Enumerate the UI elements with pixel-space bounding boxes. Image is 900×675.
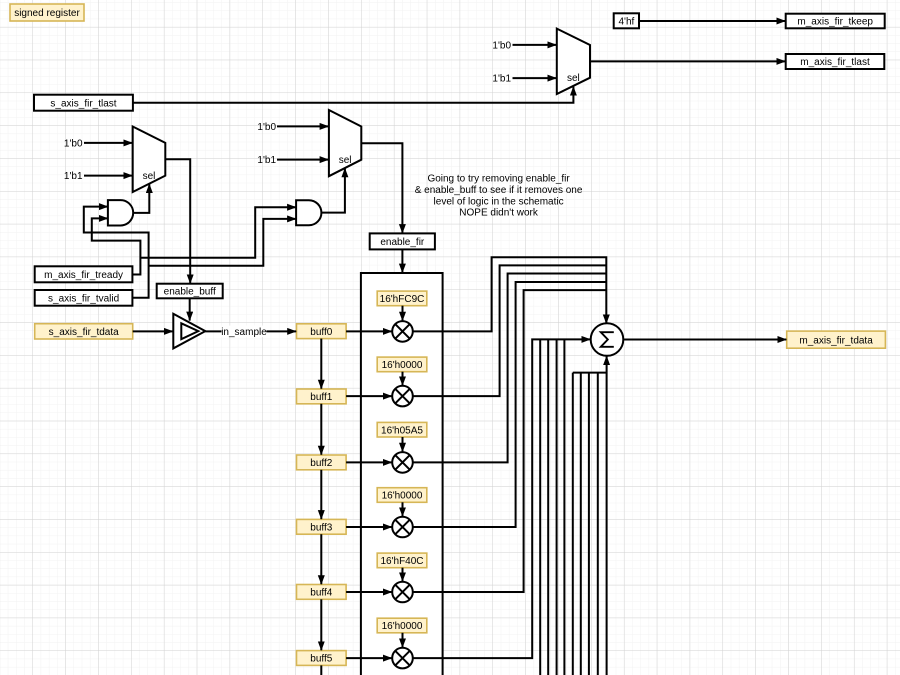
wire coefficient to multiplier X0 — [402, 306, 404, 321]
constant 1'b0 to mux M2 — [277, 125, 329, 127]
svg-text:m_axis_fir_tready: m_axis_fir_tready — [44, 270, 123, 281]
register buff3 — [297, 519, 347, 534]
svg-text:1'b0: 1'b0 — [492, 40, 511, 51]
port m_axis_fir_tdata — [787, 331, 886, 348]
svg-text:16'h05A5: 16'h05A5 — [381, 425, 423, 436]
coefficient 16'h05A5 — [377, 422, 427, 437]
wire coefficient to multiplier X2 — [402, 437, 404, 452]
wire s_axis_fir_tvalid branch to AND G2 input B — [149, 219, 297, 266]
svg-text:enable_fir: enable_fir — [380, 237, 425, 248]
svg-text:sel: sel — [143, 171, 156, 182]
wire mux M1 output to enable_buff — [165, 159, 190, 283]
wire product p12 riser to sum bottom — [588, 373, 590, 675]
svg-text:m_axis_fir_tlast: m_axis_fir_tlast — [800, 57, 870, 68]
constant 1'b1 to mux M3 — [513, 77, 557, 79]
svg-text:1'b1: 1'b1 — [257, 155, 276, 166]
register buff1 — [297, 389, 347, 404]
wire mux M2 output to enable_fir — [361, 143, 402, 233]
multiplier X0 — [392, 321, 413, 342]
port s_axis_fir_tvalid — [35, 290, 133, 306]
wire mux M3 output to m_axis_fir_tlast — [590, 60, 785, 62]
wire 4'hf to m_axis_fir_tkeep — [639, 20, 785, 22]
AND gate G1 — [108, 200, 133, 225]
svg-text:16'hFC9C: 16'hFC9C — [380, 294, 425, 305]
wire product p4 to sum top — [413, 290, 607, 592]
wire s_axis_fir_tvalid to AND G1 input A — [84, 207, 149, 298]
net label in_sample — [221, 326, 267, 338]
svg-text:16'h0000: 16'h0000 — [382, 491, 423, 502]
coefficient 16'h0000 — [377, 618, 427, 633]
wire buff0 to multiplier X0 — [346, 330, 392, 332]
wire buff2 to multiplier X2 — [346, 461, 392, 463]
coefficient 16'hF40C — [377, 553, 427, 568]
coefficient 16'h0000 — [377, 488, 427, 503]
svg-text:buff0: buff0 — [310, 327, 332, 338]
mux M1 (enable_buff select) — [133, 127, 166, 193]
wire product p6 riser to sum left — [539, 339, 541, 675]
register enable_fir — [370, 233, 435, 249]
svg-text:& enable_buff to see if it rem: & enable_buff to see if it removes one — [415, 185, 583, 196]
wire buff4 to buff5 — [320, 599, 322, 650]
wire buff0 to buff1 — [320, 339, 322, 389]
wire enable_buff to buffer U1 — [189, 298, 191, 320]
wire coefficient to multiplier X5 — [402, 633, 404, 648]
coefficient 16'hFC9C — [377, 291, 427, 306]
svg-text:buff5: buff5 — [310, 654, 332, 665]
wire product p2 to sum top — [413, 274, 607, 463]
wire product p9 riser to sum left — [563, 339, 565, 675]
port m_axis_fir_tready — [35, 266, 133, 282]
constant 1'b1 to mux M1 — [84, 175, 132, 177]
multiplier X2 — [392, 452, 413, 473]
wire product p5 to sum left — [413, 339, 591, 658]
svg-text:4'hf: 4'hf — [618, 16, 634, 27]
wire AND G2 output to mux M2 select — [321, 168, 345, 212]
svg-text:sel: sel — [567, 73, 580, 84]
wire m_axis_fir_tready branch to AND G2 input A — [140, 207, 296, 258]
wire product p3 to sum top — [413, 282, 607, 527]
multiplier X4 — [392, 582, 413, 603]
register buff4 — [297, 585, 347, 600]
wire buff1 to multiplier X1 — [346, 395, 392, 397]
wire m_axis_fir_tready to AND G1 input B — [92, 218, 141, 274]
svg-text:buff4: buff4 — [310, 588, 332, 599]
port s_axis_fir_tlast — [34, 95, 133, 111]
svg-text:m_axis_fir_tkeep: m_axis_fir_tkeep — [797, 17, 873, 28]
wire s_axis_fir_tdata to buffer U1 — [133, 330, 173, 332]
svg-text:Going to try removing enable_f: Going to try removing enable_fir — [427, 174, 570, 185]
coefficient 16'h0000 — [377, 357, 427, 372]
svg-text:enable_buff: enable_buff — [164, 287, 216, 298]
port s_axis_fir_tdata — [35, 324, 133, 339]
constant 4hf — [614, 13, 639, 28]
svg-text:16'hF40C: 16'hF40C — [380, 556, 423, 567]
label box signed register — [10, 4, 84, 21]
wire s_axis_fir_tlast to mux M3 select — [133, 87, 574, 103]
svg-text:buff3: buff3 — [310, 522, 332, 533]
svg-text:1'b1: 1'b1 — [64, 171, 83, 182]
annotation note — [415, 174, 583, 219]
mux M3 (tlast select) — [557, 29, 590, 94]
wire product p10 riser to sum bottom — [572, 373, 574, 675]
wire buff1 to buff2 — [320, 404, 322, 455]
wire sum bottom anchor bus — [573, 372, 607, 374]
wire product p14 riser into sum bottom — [606, 356, 608, 675]
multiplier X3 — [392, 517, 413, 538]
svg-text:buff2: buff2 — [310, 458, 332, 469]
wire buff4 to multiplier X4 — [346, 591, 392, 593]
multiplier block rectangle — [361, 273, 443, 675]
svg-text:NOPE didn't work: NOPE didn't work — [459, 208, 539, 219]
port m_axis_fir_tkeep — [786, 14, 885, 29]
wire AND G1 output to mux M1 select — [133, 184, 149, 213]
multiplier X1 — [392, 386, 413, 407]
wire product p1 to sum top — [413, 265, 607, 396]
constant 1'b0 to mux M3 — [513, 44, 557, 46]
wire buff3 to multiplier X3 — [346, 526, 392, 528]
svg-text:1'b1: 1'b1 — [492, 74, 511, 85]
svg-text:16'h0000: 16'h0000 — [382, 621, 423, 632]
svg-text:level of logic in the schemati: level of logic in the schematic — [434, 196, 564, 207]
svg-text:16'h0000: 16'h0000 — [382, 360, 423, 371]
register enable_buff — [157, 284, 223, 299]
svg-text:s_axis_fir_tlast: s_axis_fir_tlast — [50, 98, 116, 109]
register buff2 — [297, 455, 347, 470]
wire buff5 to multiplier X5 — [346, 657, 392, 659]
wire buff3 to buff4 — [320, 534, 322, 584]
svg-text:1'b0: 1'b0 — [257, 122, 276, 133]
multiplier X5 — [392, 648, 413, 669]
wire product p11 riser to sum bottom — [580, 373, 582, 675]
wire buffer U1 to buff0 (in_sample) — [205, 330, 296, 332]
wire coefficient to multiplier X1 — [402, 372, 404, 386]
wire coefficient to multiplier X3 — [402, 502, 404, 516]
wire product p7 riser to sum left — [547, 339, 549, 675]
register buff5 — [297, 651, 347, 666]
svg-text:in_sample: in_sample — [221, 327, 267, 338]
wire enable_fir to multiplier block — [401, 249, 403, 272]
wire product p0 to sum top — [413, 257, 607, 331]
svg-text:buff1: buff1 — [310, 392, 332, 403]
mux M2 (enable_fir select) — [329, 110, 361, 176]
svg-text:sel: sel — [339, 155, 352, 166]
summation node SIGMA — [591, 323, 624, 356]
constant 1'b0 to mux M1 — [84, 142, 132, 144]
wire product p13 riser to sum bottom — [597, 373, 599, 675]
buffer U1 (input sample register) — [173, 314, 205, 349]
wire buff5 down (cropped) — [320, 665, 322, 675]
AND gate G2 — [296, 200, 321, 225]
svg-text:s_axis_fir_tdata: s_axis_fir_tdata — [49, 327, 119, 338]
svg-text:s_axis_fir_tvalid: s_axis_fir_tvalid — [48, 294, 119, 305]
svg-text:signed register: signed register — [14, 8, 80, 19]
svg-text:m_axis_fir_tdata: m_axis_fir_tdata — [799, 335, 873, 346]
constant 1'b1 to mux M2 — [277, 159, 329, 161]
register buff0 — [297, 324, 347, 339]
svg-text:1'b0: 1'b0 — [64, 138, 83, 149]
wire sum to m_axis_fir_tdata — [623, 339, 786, 341]
port m_axis_fir_tlast — [786, 54, 885, 69]
wire buff2 to buff3 — [320, 470, 322, 519]
wire product p8 riser to sum left — [556, 339, 558, 675]
wire coefficient to multiplier X4 — [402, 568, 404, 582]
